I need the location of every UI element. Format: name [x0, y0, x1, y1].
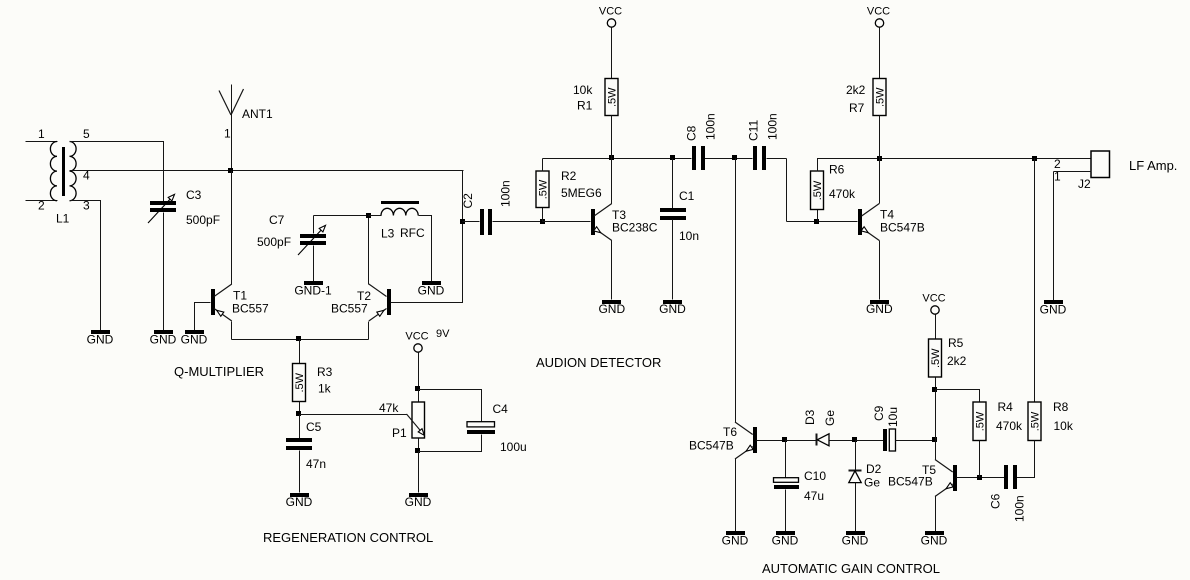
- svg-text:GND: GND: [921, 534, 948, 548]
- svg-text:BC238C: BC238C: [612, 221, 658, 235]
- svg-text:REGENERATION CONTROL: REGENERATION CONTROL: [263, 530, 433, 545]
- svg-text:GND: GND: [87, 333, 114, 347]
- svg-text:P1: P1: [392, 426, 407, 440]
- svg-text:R1: R1: [577, 99, 593, 113]
- svg-text:C3: C3: [186, 188, 202, 202]
- svg-text:9V: 9V: [436, 328, 450, 340]
- svg-text:C10: C10: [804, 469, 826, 483]
- svg-text:GND: GND: [181, 333, 208, 347]
- svg-text:GND: GND: [150, 333, 177, 347]
- svg-text:10k: 10k: [1054, 419, 1074, 433]
- svg-text:.5W: .5W: [875, 87, 887, 107]
- svg-text:R5: R5: [948, 336, 964, 350]
- svg-text:5: 5: [83, 127, 90, 141]
- svg-text:T4: T4: [880, 208, 894, 222]
- svg-text:100u: 100u: [500, 440, 527, 454]
- svg-text:GND: GND: [722, 534, 749, 548]
- svg-text:1: 1: [38, 127, 45, 141]
- svg-text:GND: GND: [405, 495, 432, 509]
- svg-text:AUDION DETECTOR: AUDION DETECTOR: [536, 355, 661, 370]
- svg-text:C9: C9: [872, 405, 886, 421]
- svg-text:C2: C2: [461, 193, 475, 209]
- svg-text:BC547B: BC547B: [880, 221, 925, 235]
- svg-text:RFC: RFC: [400, 226, 425, 240]
- svg-text:D2: D2: [866, 462, 882, 476]
- svg-text:VCC: VCC: [599, 6, 622, 18]
- svg-text:L1: L1: [56, 212, 70, 226]
- svg-text:LF Amp.: LF Amp.: [1129, 158, 1177, 173]
- svg-text:C6: C6: [988, 493, 1002, 509]
- svg-text:R6: R6: [829, 163, 845, 177]
- svg-text:10n: 10n: [679, 229, 699, 243]
- svg-text:47n: 47n: [306, 457, 326, 471]
- svg-text:470k: 470k: [996, 419, 1023, 433]
- svg-text:100n: 100n: [703, 113, 717, 140]
- svg-text:Ge: Ge: [823, 410, 837, 426]
- svg-text:5MEG6: 5MEG6: [561, 186, 602, 200]
- svg-text:D3: D3: [803, 409, 817, 425]
- svg-text:2k2: 2k2: [947, 354, 967, 368]
- svg-text:R7: R7: [849, 101, 865, 115]
- svg-text:1k: 1k: [318, 382, 332, 396]
- svg-text:1: 1: [1054, 170, 1061, 184]
- svg-text:1: 1: [224, 127, 231, 141]
- svg-text:VCC: VCC: [867, 6, 890, 18]
- svg-text:ANT1: ANT1: [242, 107, 273, 121]
- svg-text:100n: 100n: [1012, 495, 1026, 522]
- svg-text:Ge: Ge: [864, 476, 880, 490]
- svg-text:GND: GND: [418, 284, 445, 298]
- svg-text:.5W: .5W: [538, 179, 550, 199]
- svg-text:GND: GND: [866, 302, 893, 316]
- svg-text:R4: R4: [998, 400, 1014, 414]
- svg-text:GND-1: GND-1: [294, 284, 332, 298]
- svg-text:.5W: .5W: [1030, 411, 1042, 431]
- svg-text:C1: C1: [679, 189, 695, 203]
- svg-text:R8: R8: [1053, 400, 1069, 414]
- svg-text:GND: GND: [842, 534, 869, 548]
- svg-text:47k: 47k: [379, 401, 399, 415]
- svg-text:C5: C5: [306, 420, 322, 434]
- svg-text:T6: T6: [723, 425, 737, 439]
- svg-text:C8: C8: [684, 125, 698, 141]
- svg-text:.5W: .5W: [975, 411, 987, 431]
- svg-text:.5W: .5W: [607, 87, 619, 107]
- svg-text:10u: 10u: [886, 407, 900, 427]
- svg-text:Q-MULTIPLIER: Q-MULTIPLIER: [174, 364, 264, 379]
- svg-text:GND: GND: [1040, 303, 1067, 317]
- svg-text:BC547B: BC547B: [689, 439, 734, 453]
- svg-text:100n: 100n: [765, 113, 779, 140]
- svg-text:BC547B: BC547B: [888, 475, 933, 489]
- svg-text:.5W: .5W: [294, 372, 306, 392]
- svg-text:2k2: 2k2: [846, 83, 866, 97]
- svg-text:VCC: VCC: [405, 331, 428, 343]
- svg-text:AUTOMATIC GAIN CONTROL: AUTOMATIC GAIN CONTROL: [762, 561, 940, 576]
- svg-text:C4: C4: [493, 402, 509, 416]
- svg-text:R3: R3: [317, 365, 333, 379]
- svg-text:GND: GND: [659, 302, 686, 316]
- svg-text:R2: R2: [561, 169, 577, 183]
- svg-text:470k: 470k: [829, 187, 856, 201]
- svg-text:VCC: VCC: [922, 293, 945, 305]
- svg-text:J2: J2: [1078, 177, 1091, 191]
- svg-text:.5W: .5W: [930, 348, 942, 368]
- svg-text:GND: GND: [598, 302, 625, 316]
- svg-text:47u: 47u: [804, 489, 824, 503]
- svg-text:500pF: 500pF: [186, 213, 220, 227]
- svg-text:GND: GND: [772, 534, 799, 548]
- svg-text:.5W: .5W: [812, 180, 824, 200]
- svg-text:500pF: 500pF: [257, 235, 291, 249]
- svg-text:2: 2: [38, 199, 45, 213]
- svg-text:100n: 100n: [498, 180, 512, 207]
- svg-text:GND: GND: [286, 495, 313, 509]
- svg-text:C7: C7: [269, 213, 285, 227]
- svg-text:10k: 10k: [573, 83, 593, 97]
- svg-text:T1: T1: [233, 289, 247, 303]
- svg-text:L3: L3: [381, 227, 395, 241]
- svg-text:C11: C11: [746, 120, 760, 141]
- svg-text:BC557: BC557: [232, 302, 269, 316]
- svg-text:BC557: BC557: [331, 302, 368, 316]
